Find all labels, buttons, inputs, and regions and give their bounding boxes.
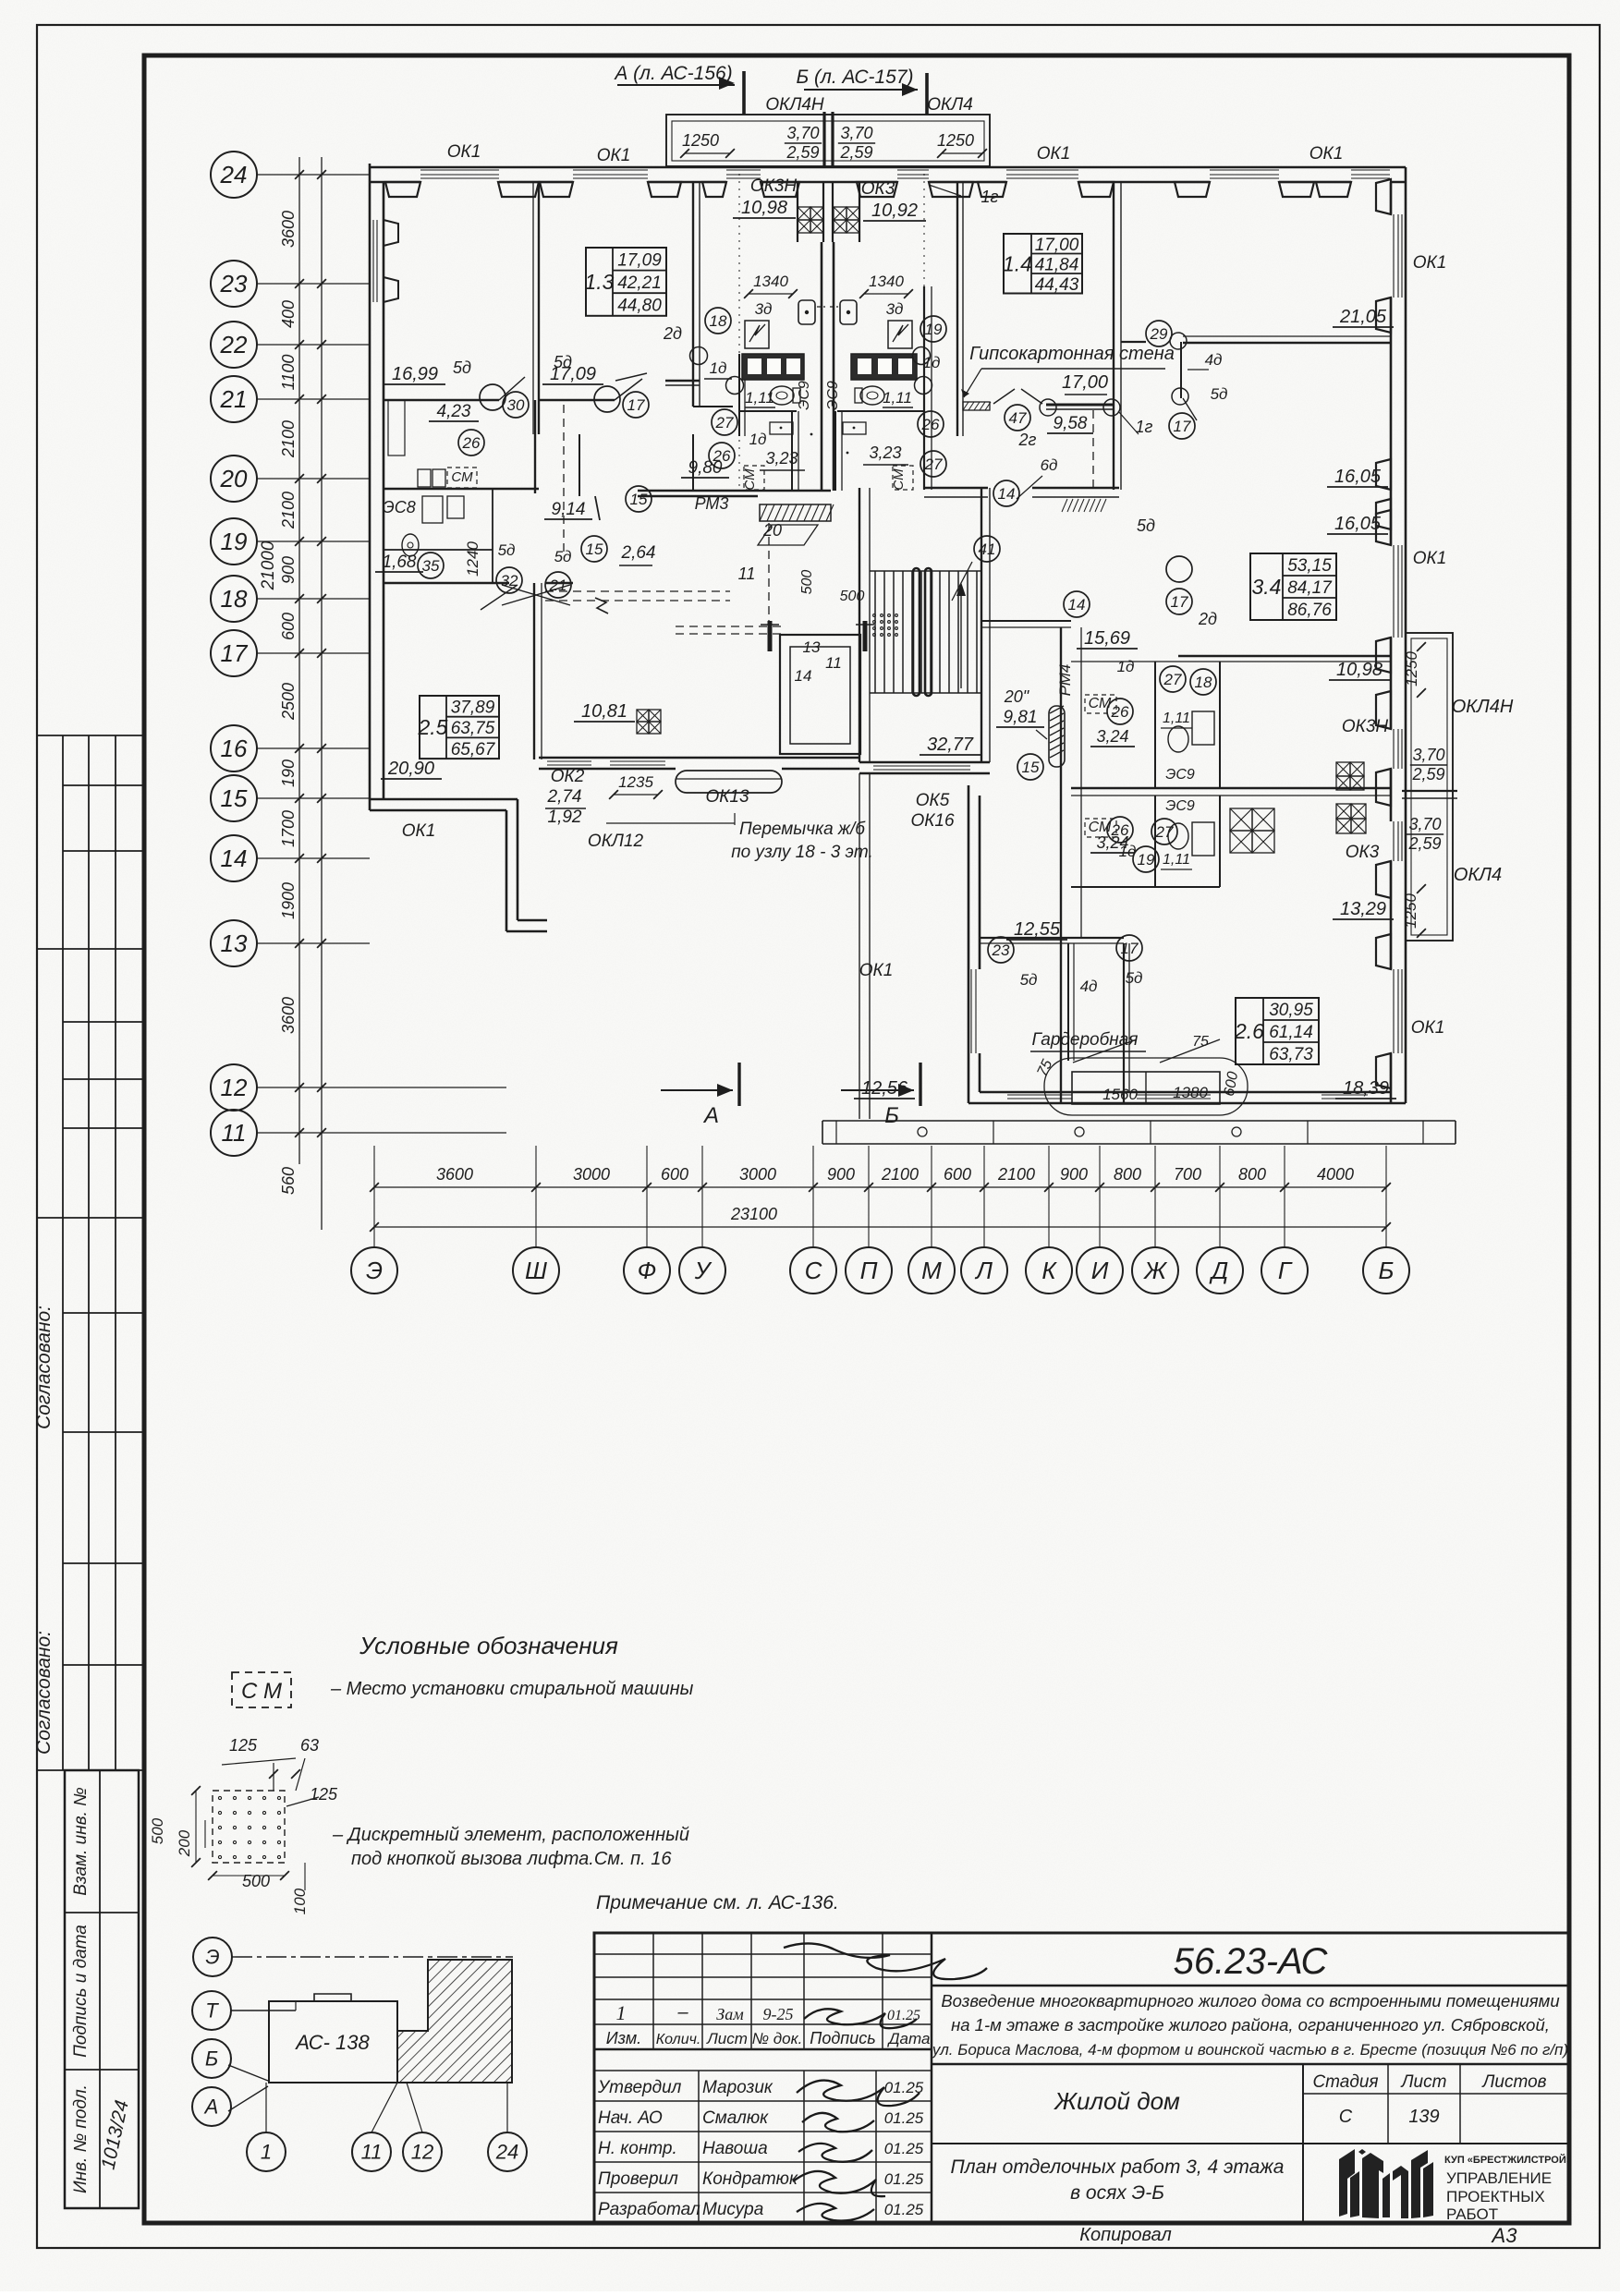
svg-text:ул. Бориса Маслова, 4-м фортом: ул. Бориса Маслова, 4-м фортом и воинско… [932, 2041, 1568, 2059]
svg-text:18,39: 18,39 [1343, 1078, 1389, 1099]
svg-text:14: 14 [221, 844, 248, 872]
svg-text:3600: 3600 [279, 211, 298, 248]
svg-text:ОК3: ОК3 [1346, 843, 1380, 862]
svg-text:24: 24 [220, 161, 248, 188]
svg-text:К: К [1041, 1257, 1057, 1284]
svg-text:29: 29 [1150, 325, 1168, 343]
svg-text:Б (л. АС-157): Б (л. АС-157) [796, 67, 913, 88]
svg-text:Подпись: Подпись [810, 2029, 875, 2047]
svg-text:2100: 2100 [279, 492, 298, 529]
svg-text:9,58: 9,58 [1054, 414, 1088, 433]
svg-text:2500: 2500 [279, 683, 298, 721]
svg-text:1г: 1г [981, 188, 999, 206]
svg-text:ОК5: ОК5 [916, 791, 950, 810]
svg-text:35: 35 [422, 557, 440, 575]
svg-text:1д: 1д [923, 354, 941, 371]
svg-text:Взам. инв. №: Взам. инв. № [71, 1787, 91, 1896]
svg-text:Разработал: Разработал [598, 2200, 700, 2219]
svg-text:125: 125 [229, 1736, 258, 1755]
svg-text:1340: 1340 [753, 273, 788, 290]
svg-text:1250: 1250 [1403, 651, 1420, 686]
svg-text:Гипсокартонная стена: Гипсокартонная стена [969, 344, 1175, 364]
svg-text:900: 900 [1060, 1165, 1088, 1184]
svg-text:Подпись и дата: Подпись и дата [71, 1925, 91, 2058]
svg-text:400: 400 [279, 300, 298, 328]
svg-text:Утвердил: Утвердил [597, 2078, 682, 2097]
svg-text:65,67: 65,67 [451, 740, 496, 759]
svg-text:17: 17 [221, 639, 249, 667]
svg-text:Проверил: Проверил [598, 2169, 678, 2189]
svg-text:190: 190 [279, 759, 298, 787]
svg-text:13,29: 13,29 [1340, 899, 1386, 919]
svg-text:11: 11 [738, 565, 756, 583]
svg-text:17: 17 [1171, 593, 1188, 611]
svg-text:560: 560 [279, 1167, 298, 1195]
svg-text:Мисура: Мисура [702, 2200, 763, 2219]
svg-text:2д: 2д [663, 324, 682, 343]
svg-text:3000: 3000 [573, 1165, 610, 1184]
svg-text:56.23-АС: 56.23-АС [1174, 1941, 1329, 1982]
svg-text:ЭС9: ЭС9 [825, 381, 841, 410]
svg-text:15: 15 [586, 541, 603, 558]
svg-text:– Место установки стиральной м: – Место установки стиральной машины [330, 1679, 694, 1699]
svg-text:12,56: 12,56 [861, 1078, 908, 1099]
svg-text:5д: 5д [1126, 969, 1143, 987]
svg-text:10,98: 10,98 [741, 198, 787, 218]
svg-text:Колич.: Колич. [656, 2032, 701, 2047]
svg-text:2д: 2д [1198, 610, 1217, 628]
svg-text:15: 15 [221, 784, 248, 812]
svg-text:4д: 4д [1205, 351, 1223, 369]
svg-text:5д: 5д [453, 358, 471, 377]
svg-text:КУП «БРЕСТЖИЛСТРОЙ»: КУП «БРЕСТЖИЛСТРОЙ» [1444, 2154, 1572, 2166]
svg-text:1235: 1235 [618, 773, 653, 791]
svg-text:11: 11 [825, 654, 842, 672]
svg-text:16,05: 16,05 [1334, 514, 1382, 534]
svg-text:44,80: 44,80 [617, 297, 662, 316]
svg-text:32: 32 [501, 572, 518, 589]
svg-text:9-25: 9-25 [763, 2005, 794, 2023]
svg-text:500: 500 [242, 1872, 270, 1890]
svg-text:ЭС8: ЭС8 [383, 498, 416, 516]
svg-text:16: 16 [221, 735, 248, 762]
svg-text:139: 139 [1408, 2107, 1439, 2127]
svg-text:800: 800 [1114, 1165, 1141, 1184]
svg-text:32,77: 32,77 [927, 735, 974, 755]
svg-text:125: 125 [310, 1785, 338, 1804]
svg-text:ОК1: ОК1 [1413, 253, 1447, 273]
svg-text:И: И [1091, 1257, 1109, 1284]
svg-text:Копировал: Копировал [1079, 2225, 1171, 2245]
svg-text:Условные обозначения: Условные обозначения [359, 1632, 618, 1659]
svg-text:42,21: 42,21 [617, 273, 662, 293]
svg-text:47: 47 [1009, 409, 1027, 427]
svg-text:16,99: 16,99 [392, 364, 438, 384]
svg-text:11: 11 [361, 2140, 383, 2163]
svg-text:Э: Э [366, 1257, 383, 1284]
svg-text:5д: 5д [1137, 516, 1155, 535]
svg-text:М: М [921, 1257, 942, 1284]
svg-text:ОК2: ОК2 [551, 767, 585, 786]
svg-text:Лист: Лист [706, 2030, 748, 2047]
svg-text:1250: 1250 [937, 131, 974, 150]
svg-text:1.3: 1.3 [585, 270, 615, 294]
svg-text:17: 17 [1121, 940, 1139, 957]
svg-text:800: 800 [1238, 1165, 1266, 1184]
svg-text:3,23: 3,23 [869, 443, 901, 462]
svg-text:по узлу 18 - 3 эт.: по узлу 18 - 3 эт. [731, 843, 873, 862]
svg-text:ОК1: ОК1 [1413, 549, 1447, 568]
svg-text:1,68: 1,68 [383, 553, 417, 572]
svg-text:900: 900 [279, 556, 298, 584]
svg-text:1д: 1д [1117, 658, 1135, 675]
svg-text:21,05: 21,05 [1339, 307, 1387, 327]
svg-text:13: 13 [803, 638, 821, 656]
svg-text:1340: 1340 [869, 273, 904, 290]
svg-text:1900: 1900 [279, 882, 298, 919]
svg-text:3600: 3600 [436, 1165, 473, 1184]
svg-text:Стадия: Стадия [1312, 2072, 1378, 2092]
svg-text:–: – [676, 2002, 688, 2023]
svg-text:1,11: 1,11 [745, 389, 774, 407]
svg-text:41: 41 [979, 541, 996, 558]
svg-text:20: 20 [220, 465, 248, 492]
svg-text:700: 700 [1174, 1165, 1201, 1184]
svg-text:20: 20 [762, 521, 782, 540]
svg-text:75: 75 [1192, 1034, 1209, 1050]
svg-text:14: 14 [795, 667, 812, 685]
svg-text:4000: 4000 [1317, 1165, 1354, 1184]
svg-text:20": 20" [1004, 687, 1030, 706]
svg-text:1д: 1д [710, 359, 727, 377]
svg-text:Э: Э [205, 1945, 219, 1968]
svg-text:С М: С М [241, 1679, 282, 1704]
svg-text:Ф: Ф [638, 1257, 657, 1284]
svg-text:2,74: 2,74 [547, 787, 582, 807]
svg-text:2г: 2г [1018, 431, 1037, 449]
svg-text:ОКЛ4: ОКЛ4 [1454, 865, 1502, 885]
svg-text:1560: 1560 [1102, 1086, 1138, 1103]
svg-text:на 1-м этаже в застройке жилог: на 1-м этаже в застройке жилого района, … [951, 2015, 1550, 2035]
svg-text:5д: 5д [554, 548, 572, 565]
svg-text:1,11: 1,11 [883, 389, 912, 407]
svg-text:Гардеробная: Гардеробная [1032, 1030, 1139, 1050]
svg-text:100: 100 [291, 1888, 309, 1914]
svg-text:23: 23 [992, 941, 1010, 959]
svg-text:Изм.: Изм. [606, 2029, 641, 2047]
svg-text:2,64: 2,64 [621, 543, 656, 563]
svg-text:23100: 23100 [730, 1205, 777, 1223]
svg-text:30: 30 [507, 396, 525, 414]
svg-text:ПРОЕКТНЫХ: ПРОЕКТНЫХ [1446, 2188, 1545, 2205]
svg-text:26: 26 [1111, 821, 1129, 839]
svg-text:01.25: 01.25 [884, 2201, 924, 2218]
svg-text:1,11: 1,11 [1163, 852, 1190, 868]
svg-text:ОК1: ОК1 [1309, 144, 1344, 164]
svg-text:3,70: 3,70 [1412, 746, 1444, 764]
svg-text:2,59: 2,59 [1407, 834, 1441, 853]
svg-text:ОК1: ОК1 [1037, 144, 1071, 164]
svg-text:12: 12 [411, 2140, 433, 2163]
svg-text:9,81: 9,81 [1004, 708, 1038, 727]
svg-text:2.5: 2.5 [418, 715, 448, 739]
svg-text:А3: А3 [1491, 2224, 1518, 2247]
svg-text:30,95: 30,95 [1269, 1001, 1313, 1020]
svg-text:П: П [860, 1257, 878, 1284]
svg-text:01.25: 01.25 [884, 2170, 924, 2188]
svg-text:ОКЛ4Н: ОКЛ4Н [765, 95, 824, 115]
svg-text:15: 15 [630, 491, 648, 508]
svg-text:ОК1: ОК1 [1411, 1018, 1445, 1038]
svg-text:Смалюк: Смалюк [702, 2108, 769, 2128]
svg-text:1100: 1100 [279, 355, 298, 391]
svg-text:2,59: 2,59 [839, 143, 872, 162]
svg-text:10,81: 10,81 [581, 701, 627, 722]
svg-text:27: 27 [1155, 823, 1174, 841]
svg-text:84,17: 84,17 [1287, 578, 1333, 598]
svg-text:2,59: 2,59 [1411, 765, 1444, 784]
svg-text:10,98: 10,98 [1336, 660, 1382, 680]
svg-text:А: А [203, 2095, 219, 2118]
svg-text:Б: Б [205, 2047, 218, 2070]
svg-text:9,14: 9,14 [552, 500, 586, 519]
svg-text:ЭС9: ЭС9 [1165, 767, 1195, 783]
svg-text:5д: 5д [1211, 385, 1228, 403]
svg-text:63: 63 [300, 1736, 319, 1755]
svg-text:№ док.: № док. [752, 2030, 803, 2047]
svg-text:1240: 1240 [464, 541, 481, 577]
svg-text:Б: Б [884, 1103, 899, 1128]
svg-text:1: 1 [616, 2001, 627, 2024]
svg-text:РМ3: РМ3 [695, 494, 729, 513]
svg-text:2100: 2100 [279, 420, 298, 458]
svg-text:15,69: 15,69 [1084, 628, 1130, 649]
svg-text:АС- 138: АС- 138 [294, 2031, 370, 2054]
svg-text:Марозик: Марозик [702, 2078, 773, 2097]
svg-text:РАБОТ: РАБОТ [1446, 2205, 1498, 2223]
svg-text:14: 14 [1068, 596, 1086, 613]
svg-text:500: 500 [799, 570, 815, 595]
svg-text:10,92: 10,92 [871, 200, 918, 221]
svg-text:9,80: 9,80 [688, 458, 723, 478]
svg-text:1.4: 1.4 [1003, 251, 1032, 275]
svg-text:1д: 1д [749, 431, 767, 448]
svg-text:53,15: 53,15 [1287, 556, 1332, 576]
svg-text:Б: Б [1379, 1257, 1395, 1284]
svg-text:17: 17 [627, 396, 645, 414]
svg-text:37,89: 37,89 [451, 698, 495, 717]
svg-text:Ж: Ж [1142, 1257, 1168, 1284]
svg-text:Перемычка ж/б: Перемычка ж/б [739, 820, 866, 839]
svg-text:01.25: 01.25 [884, 2140, 924, 2157]
svg-text:ОК16: ОК16 [910, 811, 955, 831]
svg-text:ЭС9: ЭС9 [1165, 798, 1195, 814]
svg-text:3д: 3д [886, 300, 904, 318]
svg-text:Инв. № подл.: Инв. № подл. [71, 2084, 91, 2193]
svg-text:Кондратюк: Кондратюк [702, 2169, 798, 2189]
svg-text:20,90: 20,90 [387, 759, 434, 779]
svg-text:СМ: СМ [1089, 696, 1112, 711]
svg-text:1250: 1250 [682, 131, 719, 150]
svg-text:4д: 4д [1080, 978, 1098, 995]
svg-text:А: А [702, 1103, 719, 1128]
svg-text:3.4: 3.4 [1252, 575, 1282, 599]
svg-text:ОКЛ12: ОКЛ12 [588, 832, 644, 851]
svg-text:24: 24 [495, 2140, 518, 2163]
svg-text:3д: 3д [755, 300, 773, 318]
svg-text:Т: Т [205, 1998, 219, 2022]
svg-text:18: 18 [710, 312, 727, 330]
svg-text:ОК3Н: ОК3Н [1342, 717, 1389, 736]
svg-text:900: 900 [827, 1165, 855, 1184]
svg-text:3000: 3000 [739, 1165, 776, 1184]
svg-text:1380: 1380 [1173, 1084, 1208, 1101]
svg-text:27: 27 [924, 456, 943, 473]
svg-text:3,23: 3,23 [765, 449, 798, 468]
svg-text:2,59: 2,59 [786, 143, 819, 162]
svg-text:19: 19 [1138, 851, 1155, 869]
svg-text:44,43: 44,43 [1035, 275, 1079, 295]
svg-text:1700: 1700 [279, 810, 298, 847]
svg-text:4,23: 4,23 [437, 402, 471, 421]
svg-text:19: 19 [221, 528, 248, 555]
svg-text:27: 27 [1163, 671, 1182, 688]
svg-text:Д: Д [1209, 1257, 1228, 1284]
svg-text:11: 11 [222, 1119, 247, 1147]
svg-text:Н. контр.: Н. контр. [598, 2139, 677, 2158]
svg-text:200: 200 [176, 1829, 193, 1857]
svg-text:3600: 3600 [279, 997, 298, 1034]
svg-text:86,76: 86,76 [1287, 601, 1332, 620]
svg-text:ОК1: ОК1 [597, 146, 631, 165]
svg-text:ОКЛ4: ОКЛ4 [927, 95, 973, 115]
svg-text:2100: 2100 [997, 1165, 1035, 1184]
svg-text:5д: 5д [554, 353, 572, 371]
svg-text:1,92: 1,92 [548, 808, 582, 827]
svg-text:600: 600 [944, 1165, 971, 1184]
svg-text:27: 27 [715, 414, 734, 431]
svg-text:– Дискретный элемент, располож: – Дискретный элемент, расположенный [332, 1825, 689, 1845]
svg-text:Примечание см. л. АС-136.: Примечание см. л. АС-136. [596, 1892, 839, 1913]
svg-text:А (л. АС-156): А (л. АС-156) [613, 63, 732, 84]
svg-text:3,70: 3,70 [786, 124, 819, 142]
svg-text:500: 500 [149, 1817, 166, 1844]
svg-text:22: 22 [220, 331, 248, 358]
svg-text:12,55: 12,55 [1014, 919, 1061, 940]
svg-text:ОК13: ОК13 [705, 787, 749, 807]
svg-text:Зам: Зам [716, 2005, 744, 2023]
svg-text:Жилой дом: Жилой дом [1053, 2087, 1180, 2115]
svg-text:Навоша: Навоша [702, 2139, 768, 2158]
svg-text:ОК1: ОК1 [859, 961, 894, 980]
svg-text:Лист: Лист [1400, 2072, 1447, 2092]
svg-text:17,00: 17,00 [1035, 236, 1079, 255]
svg-text:17,09: 17,09 [617, 250, 662, 270]
svg-text:под кнопкой вызова лифта.См. п: под кнопкой вызова лифта.См. п. 16 [351, 1849, 672, 1869]
svg-text:С: С [1339, 2107, 1353, 2127]
svg-text:РМ4: РМ4 [1056, 664, 1074, 697]
svg-text:5д: 5д [498, 541, 516, 559]
svg-text:2100: 2100 [881, 1165, 919, 1184]
svg-text:23: 23 [220, 270, 248, 298]
svg-text:Согласовано:: Согласовано: [33, 1306, 55, 1429]
svg-text:63,73: 63,73 [1269, 1045, 1313, 1064]
svg-text:5д: 5д [1020, 971, 1038, 989]
svg-text:63,75: 63,75 [451, 719, 495, 738]
svg-text:ЭС9: ЭС9 [797, 381, 812, 410]
svg-text:ОК1: ОК1 [447, 142, 481, 162]
svg-text:21000: 21000 [259, 541, 278, 590]
svg-text:3,24: 3,24 [1096, 727, 1128, 746]
svg-text:Г: Г [1278, 1257, 1293, 1284]
svg-text:16,05: 16,05 [1334, 467, 1382, 487]
svg-text:1250: 1250 [1402, 893, 1419, 929]
svg-text:41,84: 41,84 [1035, 255, 1079, 274]
svg-text:Нач. АО: Нач. АО [598, 2108, 663, 2128]
svg-text:С: С [805, 1257, 822, 1284]
svg-text:26: 26 [462, 434, 481, 452]
svg-text:3,70: 3,70 [840, 124, 872, 142]
svg-text:План отделочных работ 3, 4 эта: План отделочных работ 3, 4 этажа [951, 2156, 1285, 2178]
svg-text:1,11: 1,11 [1163, 711, 1190, 726]
svg-text:15: 15 [1022, 759, 1040, 776]
svg-text:УПРАВЛЕНИЕ: УПРАВЛЕНИЕ [1446, 2169, 1552, 2187]
svg-text:У: У [694, 1257, 713, 1284]
svg-text:12: 12 [221, 1074, 248, 1101]
svg-text:Ш: Ш [525, 1257, 547, 1284]
svg-text:ОК3Н: ОК3Н [750, 176, 798, 196]
svg-text:3,70: 3,70 [1408, 815, 1441, 833]
svg-text:Дата: Дата [887, 2030, 931, 2047]
svg-text:1: 1 [261, 2140, 272, 2163]
svg-text:13: 13 [221, 929, 248, 957]
svg-text:Согласовано:: Согласовано: [33, 1631, 55, 1755]
svg-text:2.6: 2.6 [1234, 1019, 1264, 1043]
svg-text:14: 14 [998, 485, 1016, 503]
svg-text:Возведение многоквартирного жи: Возведение многоквартирного жилого дома … [941, 1991, 1559, 2011]
svg-text:СМ: СМ [451, 469, 473, 485]
svg-text:26: 26 [921, 416, 940, 433]
svg-text:ОКЛ4Н: ОКЛ4Н [1452, 697, 1514, 717]
svg-text:26: 26 [1111, 703, 1129, 721]
svg-text:01.25: 01.25 [884, 2109, 924, 2127]
svg-text:в осях Э-Б: в осях Э-Б [1070, 2182, 1164, 2204]
svg-text:61,14: 61,14 [1269, 1023, 1313, 1042]
svg-text:ОК3: ОК3 [861, 179, 895, 199]
svg-text:21: 21 [549, 577, 567, 594]
svg-text:6д: 6д [1041, 456, 1058, 474]
svg-text:ОК1: ОК1 [402, 821, 436, 841]
svg-text:17: 17 [1174, 418, 1191, 435]
svg-text:19: 19 [925, 321, 943, 338]
svg-text:18: 18 [1195, 674, 1212, 691]
svg-text:18: 18 [221, 585, 248, 613]
svg-text:21: 21 [220, 385, 248, 413]
svg-text:17,00: 17,00 [1062, 372, 1108, 393]
svg-text:600: 600 [661, 1165, 688, 1184]
svg-text:500: 500 [840, 589, 865, 604]
svg-text:Листов: Листов [1480, 2072, 1546, 2092]
svg-text:600: 600 [279, 613, 298, 640]
svg-text:Л: Л [974, 1257, 993, 1284]
